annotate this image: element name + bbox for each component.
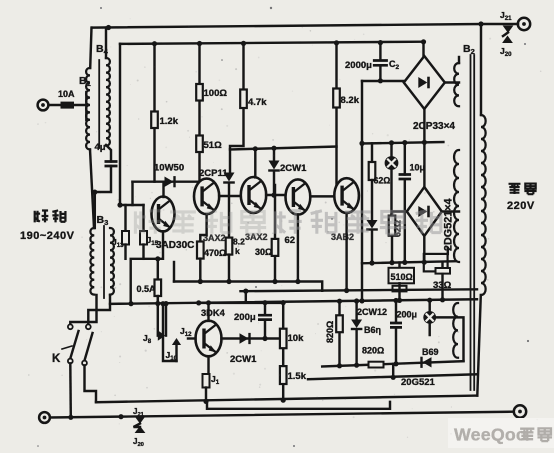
node 2CW1 top: [271, 146, 276, 151]
capacitor 4u plates: [105, 162, 118, 167]
wire 3DK4 box top: [199, 302, 284, 304]
transistor Q5: [334, 178, 359, 213]
wire bus A: [174, 282, 322, 291]
wire Q3 to Q4: [266, 194, 285, 196]
wire Q2 bottom: [200, 214, 206, 241]
wire 200u2 col: [395, 301, 397, 365]
node 100ohm top: [197, 41, 202, 46]
node J12 busC: [160, 301, 165, 306]
switch K link bar: [62, 346, 72, 349]
bridge rectifier 2CP33x4: [404, 56, 445, 109]
node row262 d: [422, 260, 427, 265]
node lineA j1: [203, 399, 208, 404]
transformer B2 upper left winding: [454, 63, 459, 106]
wire top to terminal: [481, 23, 518, 25]
wire Q6 emitter: [207, 356, 209, 374]
svg-text:820Ω: 820Ω: [362, 346, 384, 356]
wire C2 bottom to bridge: [362, 65, 405, 81]
node 2CW1 link: [271, 193, 276, 198]
node 3dk4 collector: [206, 300, 211, 305]
svg-text:1.2k: 1.2k: [160, 116, 179, 127]
svg-text:K: K: [52, 353, 61, 365]
box 33ohm bracket: [424, 254, 448, 272]
wire row377: [308, 374, 477, 379]
node busC 200u: [393, 298, 398, 303]
wire right lower vertical: [477, 295, 481, 396]
switch K blade 2: [85, 333, 93, 361]
zener 2CW12: [351, 320, 362, 329]
svg-text:100Ω: 100Ω: [204, 88, 228, 99]
wire input lead: [49, 104, 89, 106]
node mid-left: [117, 202, 122, 207]
relay contact J20 bottom tri: [135, 426, 146, 433]
diode 2CW1 upper: [269, 161, 280, 170]
wire 1.2k column: [153, 44, 155, 182]
wire 10u stubs: [404, 143, 406, 263]
wire Q1 emitter line: [131, 231, 163, 303]
transformer B3 left winding: [90, 228, 94, 295]
wire Q4 to Q5: [310, 195, 334, 197]
svg-text:2CW1: 2CW1: [230, 354, 257, 365]
wire mid link row: [230, 147, 337, 150]
svg-text:k: k: [235, 246, 240, 256]
wire x362 column: [361, 81, 363, 301]
wire Q1 collector stub: [162, 183, 164, 197]
node 8.2k top: [334, 40, 339, 45]
wire 470 bottom: [199, 259, 201, 282]
relay coil J13: [122, 231, 129, 245]
svg-text:10A: 10A: [58, 89, 75, 99]
node C2 bottom: [378, 78, 383, 83]
wire x245 col: [245, 291, 247, 303]
wire C2 column: [379, 43, 381, 59]
wire 200u stub: [264, 303, 266, 339]
wire inner-left column: [119, 44, 121, 205]
label input chinese 1: [34, 210, 48, 222]
wire busA stub: [173, 262, 175, 282]
wire 0.5A column: [157, 259, 159, 336]
lamp XD2: [423, 311, 436, 324]
resistor 33ohm: [436, 268, 451, 274]
node lineA 15k: [281, 398, 286, 403]
resistor 62ohm first: [369, 162, 376, 180]
wire J15 bottom: [142, 245, 144, 259]
bottom-right terminal: [514, 405, 526, 417]
node row262 a: [369, 260, 374, 265]
output terminal top: [518, 18, 530, 30]
resistor 510 small: [393, 286, 407, 292]
wire bridge2 left lead: [392, 212, 407, 216]
wire left column down: [94, 192, 96, 228]
wire Q4 bottom: [297, 215, 299, 282]
input terminal: [38, 100, 49, 111]
transformer B2 mid winding: [454, 150, 459, 262]
diode 2CP11: [224, 173, 235, 182]
transformer core line lower: [103, 226, 105, 298]
node C2 top: [378, 40, 383, 45]
resistor 820ohm vert: [336, 315, 343, 332]
wire Q5 bottom: [345, 213, 347, 291]
wire 510 col bottom: [398, 283, 400, 300]
wire 33 col: [441, 262, 443, 268]
transistor Q2: [194, 179, 219, 215]
node busB x245: [243, 289, 248, 294]
node 3dk4 left: [196, 300, 201, 305]
wire 0.5A to busC: [157, 296, 159, 304]
scan noise texture: [219, 79, 221, 81]
wire top inner bus: [120, 42, 424, 44]
wire Q3 top stub: [254, 149, 256, 178]
wire switch2 to lower bus: [85, 365, 97, 402]
wire row E: [322, 361, 463, 366]
resistor 8.2k: [333, 89, 340, 108]
scan specks: [270, 7, 272, 9]
transformer B2 lower left winding: [453, 303, 458, 358]
node busC lamp2: [427, 298, 432, 303]
wire line A lower bus: [96, 396, 477, 403]
diode on 62 col: [367, 220, 378, 229]
wire Q6 collector: [207, 303, 209, 321]
svg-text:3DK4: 3DK4: [201, 308, 226, 318]
resistor 8.2k second: [226, 238, 233, 255]
diode 20G521: [423, 357, 432, 367]
capacitor 200u first: [258, 315, 272, 319]
node busA 30: [272, 279, 277, 284]
svg-text:10μ: 10μ: [410, 163, 426, 173]
svg-text:51Ω: 51Ω: [204, 140, 223, 151]
resistor 1.5k: [280, 366, 287, 384]
transformer B3 right winding: [110, 228, 114, 295]
svg-text:62Ω: 62Ω: [374, 176, 391, 186]
node bridge1 bottom x142: [422, 140, 427, 145]
wire 30ohm column: [274, 185, 276, 282]
wire row262: [362, 261, 456, 263]
transformer B2 core lines: [471, 55, 475, 390]
node bottom switch: [68, 415, 73, 420]
wire mid connector left: [120, 204, 144, 206]
node busA 470: [198, 279, 203, 284]
node busC 2cw12: [354, 298, 359, 303]
node top-left B4 tap: [106, 25, 111, 30]
node busA 82k: [226, 279, 231, 284]
node row262 b: [389, 260, 394, 265]
wire 8.2k column: [335, 43, 337, 196]
wire 8.2k2 bottom: [228, 255, 230, 282]
node busC 820: [337, 299, 342, 304]
wire bridge1 right lead: [445, 81, 459, 83]
relay contact J20 bottom step: [134, 424, 141, 428]
svg-text:2CW12: 2CW12: [357, 307, 387, 317]
relay contact J21 top tri: [503, 26, 514, 34]
wire relay col J15: [142, 205, 144, 231]
watermark weeqoo: [448, 418, 554, 448]
wire Q6 base stub: [188, 337, 196, 339]
wire cap to node: [95, 166, 111, 192]
wire switch1 to bottom bus: [69, 363, 72, 417]
watermark company text: [135, 211, 162, 234]
node row338 cap: [262, 336, 267, 341]
node 3dk4 right: [281, 300, 286, 305]
switch K upper contacts: [68, 324, 73, 329]
resistor 62ohm second: [389, 216, 396, 236]
wire 510 col top: [398, 263, 400, 268]
node busC left: [128, 301, 133, 306]
svg-text:62: 62: [285, 235, 296, 246]
capacitor 10u: [399, 175, 412, 180]
wire Q6 output row: [221, 337, 283, 339]
wire J12 bottom bend: [163, 304, 177, 361]
wire 2CW12 col: [355, 301, 357, 365]
wire diode col bottom: [371, 232, 373, 263]
lamp XD1: [385, 156, 399, 170]
wire sub loop: [207, 401, 390, 408]
svg-text:B6η: B6η: [364, 325, 381, 335]
wire top outer bus: [92, 24, 481, 28]
transistor Q3: [241, 177, 266, 213]
switch K blade 1: [70, 331, 78, 359]
node top right: [478, 21, 483, 26]
transformer B1 primary winding upper: [86, 68, 90, 149]
svg-text:B69: B69: [422, 347, 439, 357]
wire lamp2 stub: [428, 300, 430, 311]
node 33 busC: [440, 297, 445, 302]
svg-text:2CP11: 2CP11: [199, 168, 228, 179]
wire bridge2 bottom stub: [423, 236, 425, 262]
svg-text:4.7k: 4.7k: [248, 97, 267, 108]
svg-text:8.2: 8.2: [233, 237, 245, 247]
node drop377: [391, 375, 396, 380]
transformer core line upper: [98, 60, 100, 148]
wire bridge1 top stub: [422, 42, 424, 57]
wire 62ohm col a: [371, 143, 373, 162]
transistor Q1 3AD30C: [152, 197, 175, 232]
box 510ohm: [389, 268, 415, 284]
resistor 4.7k: [240, 90, 247, 109]
resistor 100ohm: [196, 84, 203, 101]
node 10u top: [402, 140, 407, 145]
relay coil J15: [140, 231, 147, 245]
svg-text:20G521: 20G521: [401, 377, 436, 388]
node x362 lamp row: [359, 141, 364, 146]
node rowE 820: [337, 363, 342, 368]
wire B1 top lead: [90, 28, 91, 68]
label output chinese 2: [524, 184, 536, 195]
wire lamp1 stubs: [390, 143, 392, 216]
wire 10k col: [282, 303, 284, 401]
diode 2CW1 lower: [240, 333, 249, 343]
svg-text:190~240V: 190~240V: [20, 230, 75, 242]
wire bridge2 right lead: [442, 210, 459, 212]
svg-text:3AD30C: 3AD30C: [156, 240, 194, 251]
wire diode col: [371, 180, 373, 219]
svg-text:200μ: 200μ: [234, 312, 256, 323]
node bridge1 top: [421, 39, 426, 44]
wire 820ohm col: [338, 301, 340, 365]
wire right top vertical: [480, 24, 482, 115]
wire B4 to cap: [106, 145, 111, 162]
bottom-left terminal: [39, 412, 50, 423]
label input chinese 2: [52, 210, 65, 222]
svg-text:0.5A: 0.5A: [137, 284, 157, 294]
label output chinese 1: [509, 184, 521, 194]
svg-text:2CP33×4: 2CP33×4: [413, 121, 455, 132]
node 4.7k top: [241, 41, 246, 46]
wire bus C: [110, 299, 477, 304]
wire bottom main bus: [50, 412, 514, 418]
node row262 c: [402, 260, 407, 265]
wire J13 bottom: [124, 245, 126, 259]
resistor 820ohm horiz: [369, 362, 384, 368]
node lamp1 top: [389, 140, 394, 145]
resistor 30ohm: [272, 239, 279, 256]
relay contact J20 tri: [502, 36, 513, 44]
relay contact J20 step: [503, 33, 508, 37]
wire J8 up to busC: [165, 304, 167, 336]
wire B3 left bottom lead: [70, 295, 96, 324]
resistor 1.2k: [151, 112, 158, 129]
wire 33 right link: [447, 248, 449, 254]
wire B4 top lead: [105, 28, 107, 58]
node rowE 200u: [393, 361, 398, 366]
svg-text:470Ω: 470Ω: [204, 248, 226, 258]
wire 2CW1 col: [273, 148, 275, 195]
svg-text:10W50: 10W50: [154, 163, 184, 174]
wire bus B: [241, 289, 478, 291]
resistor 51ohm: [196, 136, 203, 153]
svg-text:2CW1: 2CW1: [280, 163, 307, 174]
node rowE 2cw12: [354, 363, 359, 368]
node bottom 121: [118, 414, 123, 419]
wire bridge1 bottom stub: [423, 109, 425, 187]
diode 10W50: [165, 177, 174, 187]
relay contact J21 bottom tri: [135, 416, 146, 424]
wire B1 winding mid link: [90, 150, 94, 229]
node 1.2k top: [152, 41, 157, 46]
node J8 busC: [163, 301, 168, 306]
wire J1 bottom: [205, 388, 207, 402]
node busC 510: [397, 298, 402, 303]
resistor 10k: [280, 329, 287, 349]
wire input end bar: [85, 92, 87, 120]
node left 192: [92, 190, 97, 195]
svg-text:4μ: 4μ: [95, 142, 106, 153]
switch K lower contacts: [68, 359, 73, 364]
svg-text:2000μ: 2000μ: [345, 60, 372, 71]
node busC x362: [359, 298, 364, 303]
resistor 470ohm: [197, 242, 204, 259]
wire B2 seg1 top: [458, 57, 460, 63]
relay contact J8 tri: [158, 330, 166, 340]
wire 2CP11 bottom: [228, 184, 230, 238]
svg-text:1.5k: 1.5k: [288, 371, 307, 382]
svg-text:10k: 10k: [288, 333, 305, 344]
wire 33 down to busC: [441, 274, 443, 300]
wire Q2 to Q3: [219, 195, 241, 197]
capacitor 200u second: [390, 323, 402, 327]
svg-text:200μ: 200μ: [397, 310, 418, 320]
svg-text:2DG521×4: 2DG521×4: [443, 198, 455, 251]
svg-text:220V: 220V: [507, 200, 535, 212]
transistor Q4: [286, 179, 311, 214]
fuse 10A: [61, 102, 75, 109]
wire B3 right bottom lead: [88, 295, 110, 324]
node busB q5: [344, 288, 349, 293]
wire relay col J13: [124, 205, 126, 231]
node Q3 top: [253, 146, 258, 151]
wire lamp row bus: [362, 142, 443, 144]
svg-text:30Ω: 30Ω: [255, 247, 272, 257]
wire base-bus drop: [131, 182, 133, 205]
transistor Q6 3DK4: [196, 321, 222, 357]
svg-text:820Ω: 820Ω: [325, 321, 335, 343]
svg-text:8.2k: 8.2k: [341, 95, 360, 106]
wire 100ohm column: [198, 44, 200, 187]
relay arrow J12: [175, 344, 177, 361]
wire base bus left: [133, 180, 200, 182]
relay coil J1: [203, 374, 210, 388]
bridge rectifier 2DG521x4: [407, 187, 442, 236]
node busA q4: [295, 279, 300, 284]
wire 62ohm2 bottom: [391, 236, 393, 263]
transformer B4 winding: [106, 58, 110, 146]
capacitor C2 2000u: [373, 61, 388, 66]
wire lamp2 loop: [430, 317, 464, 361]
resistor 0.5A: [155, 280, 162, 297]
node emitter-05A: [155, 256, 160, 261]
wire 4.7k column: [230, 43, 244, 173]
node busC b: [155, 301, 160, 306]
node 3dk4 cap: [262, 300, 267, 305]
svg-text:WeeQoo: WeeQoo: [454, 425, 527, 445]
svg-text:510Ω: 510Ω: [391, 272, 413, 282]
wire lower cluster drop: [392, 364, 394, 377]
transformer B2 right winding: [481, 115, 486, 295]
